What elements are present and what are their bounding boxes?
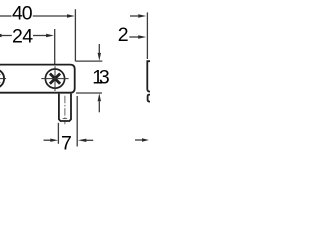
extension line for 2 at x=147.4 — [146, 12, 148, 59]
tab below bar with chamfered bottom corners — [59, 94, 71, 121]
left screw horizontal spoke — [0, 78, 6, 80]
svg-text:2: 2 — [118, 24, 129, 46]
screw symbol right: X cross — [50, 74, 60, 84]
extension line tab-left x=58.4 — [57, 123, 59, 144]
bottom left-out-arrow tail — [86, 139, 93, 141]
arrowhead 7 right — [50, 139, 58, 142]
arrowhead top-right y16 — [138, 14, 146, 17]
arrowhead 24 right — [46, 34, 54, 37]
dimension line 40 (right segment) — [33, 15, 68, 17]
svg-text:13: 13 — [92, 67, 110, 89]
svg-text:24: 24 — [12, 25, 33, 47]
arrowhead bottom pointing right at x=148.9 — [142, 138, 149, 141]
extension line top of side part y=61.1 — [75, 60, 102, 62]
svg-text:7: 7 — [61, 132, 72, 150]
extension line x=77.2 — [76, 96, 78, 147]
arrowhead bottom pointing left at x=77.9 — [78, 139, 87, 142]
dimension line 2 at y=37 — [129, 36, 138, 38]
dim line 7 arrow tail — [44, 139, 51, 141]
screw symbol right: thin crosshairs — [41, 66, 68, 91]
screw symbol right: circle — [45, 69, 64, 88]
dimension line 24 (right segment) — [33, 35, 47, 37]
side part flange: top edge + left face + bottom curve — [147, 61, 150, 91]
svg-text:40: 40 — [12, 3, 33, 25]
side part lower piece (rounded left) — [148, 95, 150, 102]
extension line for 40 at x=75.4 — [74, 9, 76, 61]
centerline of tab (dash-dot) x=64.9 — [63, 96, 67, 124]
extension line bottom y=93 — [76, 92, 102, 94]
dim line 13 upper tail — [98, 44, 100, 53]
dimension line 40 (left segment) — [0, 15, 12, 17]
arrowhead 13 up — [98, 93, 101, 101]
top-right arrow line at y=16 — [130, 15, 138, 17]
arrowhead 13 down — [98, 53, 101, 61]
arrowhead 24 left (tip off-image) — [0, 34, 2, 37]
bottom right-out-arrow tail — [135, 139, 142, 141]
screw symbol left (partial, center off-image) — [0, 69, 4, 88]
front-view bar with rounded right corners — [0, 65, 75, 93]
dimension line 24 (left stub) — [1, 35, 11, 37]
centerline cross dash — [63, 118, 67, 120]
extension line for 24 at x=54.7 — [54, 29, 56, 66]
dim line 13 lower tail — [98, 101, 100, 112]
arrowhead 2 right — [138, 35, 146, 38]
arrowhead 40 right — [67, 14, 75, 17]
